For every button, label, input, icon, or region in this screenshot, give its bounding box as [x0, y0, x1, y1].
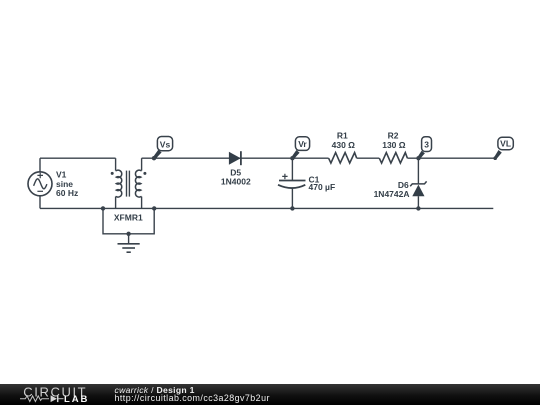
- wire top main (secondary to VL): [142, 157, 329, 159]
- svg-text:470 µF: 470 µF: [309, 182, 336, 192]
- svg-text:Vs: Vs: [160, 139, 171, 149]
- svg-text:1N4002: 1N4002: [221, 176, 251, 186]
- wire transformer ground bracket: [103, 208, 154, 243]
- node flag 3: [417, 137, 431, 160]
- junction dot Vr: [290, 156, 294, 160]
- svg-text:VL: VL: [500, 139, 511, 149]
- capacitor C1: [278, 158, 335, 208]
- node flag Vr: [291, 137, 309, 160]
- node flag VL: [494, 137, 513, 159]
- svg-text:Vr: Vr: [298, 139, 307, 149]
- junction dot bracket left: [101, 206, 105, 210]
- diode D5: [221, 151, 251, 186]
- svg-text:60 Hz: 60 Hz: [56, 188, 78, 198]
- footer bar: [0, 384, 540, 405]
- svg-text:LAB: LAB: [64, 394, 89, 405]
- primary polarity dot: [111, 172, 114, 175]
- svg-text:R1: R1: [337, 130, 348, 140]
- voltage source V1: [28, 158, 78, 208]
- svg-text:XFMR1: XFMR1: [114, 212, 143, 222]
- wire top left (V1 to transformer primary): [40, 157, 116, 159]
- svg-text:R2: R2: [388, 130, 399, 140]
- primary winding: [115, 158, 117, 170]
- svg-text:3: 3: [424, 140, 429, 150]
- secondary winding: [141, 158, 143, 170]
- junction dot VL tap: [493, 156, 497, 160]
- footer credit text: [115, 386, 270, 402]
- ground: [118, 244, 140, 252]
- transformer XFMR1: [111, 158, 147, 222]
- wire bottom rail: [40, 207, 493, 209]
- resistor R2: [379, 130, 407, 163]
- svg-text:130 Ω: 130 Ω: [382, 140, 406, 150]
- resistor R1: [329, 130, 357, 163]
- svg-text:430 Ω: 430 Ω: [332, 140, 356, 150]
- junction dot D6 bottom: [416, 206, 420, 210]
- transformer core: [126, 171, 128, 197]
- junction dot bracket center: [126, 232, 130, 236]
- zener diode D6: [374, 158, 427, 208]
- secondary polarity dot: [143, 172, 146, 175]
- junction dot C1 bottom: [290, 206, 294, 210]
- svg-text:1N4742A: 1N4742A: [374, 189, 410, 199]
- junction dot node 3: [416, 156, 420, 160]
- footer logo CIRCUIT LAB: [0, 384, 110, 405]
- node flag Vs: [153, 137, 173, 160]
- junction dot Vs tap: [152, 156, 156, 160]
- junction dot bracket right: [152, 206, 156, 210]
